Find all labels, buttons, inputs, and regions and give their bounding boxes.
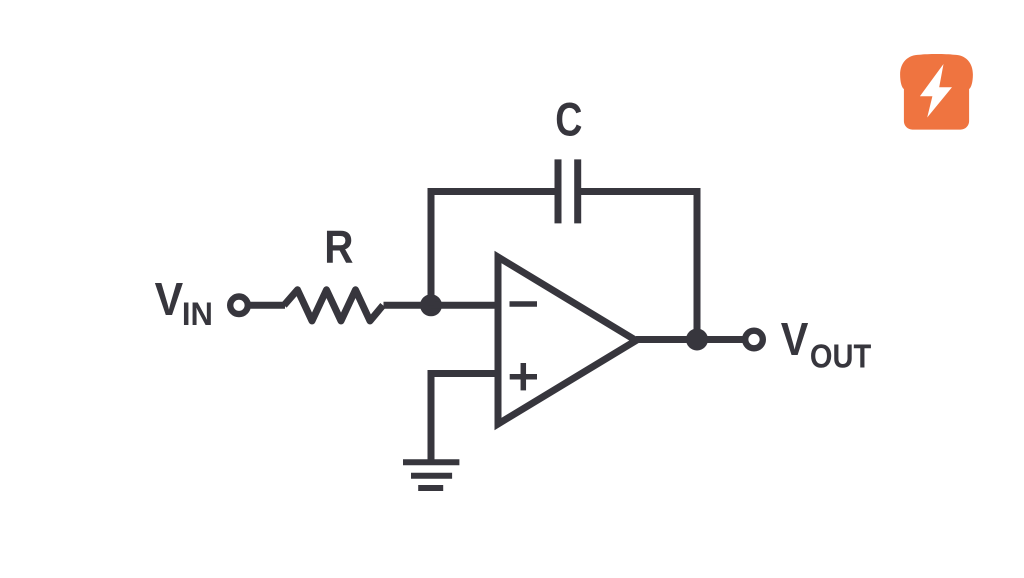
wire node A to op-amp inverting input bbox=[431, 302, 498, 309]
svg-text:V: V bbox=[781, 314, 809, 366]
svg-text:OUT: OUT bbox=[810, 338, 871, 375]
capacitor C right plate bbox=[574, 159, 581, 223]
op-amp U1 triangle bbox=[498, 257, 636, 424]
op-amp plus sign bbox=[510, 374, 537, 380]
label VIN bbox=[155, 275, 184, 326]
wire feedback right vertical bbox=[694, 192, 701, 340]
wire input terminal to resistor bbox=[251, 302, 286, 309]
label VOUT bbox=[781, 314, 809, 366]
resistor R bbox=[284, 290, 383, 321]
ground symbol bbox=[403, 459, 459, 465]
node A (inverting input junction) bbox=[420, 294, 442, 316]
lightning bolt bbox=[920, 64, 952, 118]
wire node B to output terminal bbox=[697, 336, 745, 343]
wire feedback left vertical bbox=[428, 188, 435, 305]
label C bbox=[555, 94, 582, 147]
wire to ground bbox=[428, 374, 435, 463]
svg-text:C: C bbox=[555, 94, 582, 147]
capacitor C left plate bbox=[555, 159, 562, 223]
CircuitBread toast logo bbox=[900, 54, 973, 130]
input terminal (open circle) bbox=[230, 297, 248, 315]
svg-text:IN: IN bbox=[182, 295, 213, 332]
wire feedback top right horizontal bbox=[578, 188, 701, 195]
svg-text:R: R bbox=[324, 222, 353, 273]
wire feedback top left horizontal bbox=[428, 188, 559, 195]
wire op-amp output to node B bbox=[636, 336, 697, 343]
output terminal (open circle) bbox=[745, 331, 763, 349]
wire resistor to node A bbox=[384, 302, 432, 309]
svg-text:V: V bbox=[155, 275, 184, 326]
op-amp minus sign bbox=[510, 301, 538, 307]
wire non-inverting input bbox=[428, 370, 499, 377]
label R bbox=[324, 222, 353, 273]
node B (output junction) bbox=[686, 329, 708, 351]
